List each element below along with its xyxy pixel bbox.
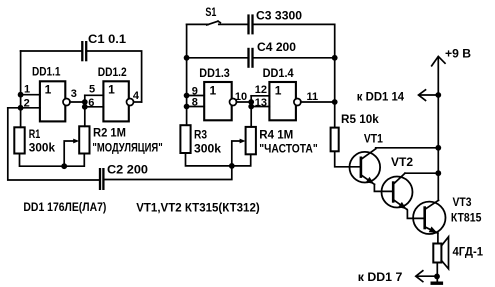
gate DD1.2 [103, 81, 133, 121]
wire pin6 [85, 106, 104, 108]
wire pin13 [251, 106, 269, 108]
svg-text:VT1: VT1 [364, 131, 383, 145]
wire pin9 [187, 95, 205, 97]
wire C4 row left [187, 57, 248, 59]
wire VT1 emitter to VT2 base [374, 184, 392, 191]
svg-text:DD1.3: DD1.3 [199, 66, 230, 80]
wire pin3 [70, 101, 85, 103]
svg-text:R3: R3 [194, 128, 207, 142]
svg-text:к DD1 7: к DD1 7 [358, 270, 403, 284]
wire R3 bottom rail to R4 [186, 153, 251, 166]
svg-text:4ГД-1: 4ГД-1 [453, 244, 484, 258]
wire to DD1 pin7 [416, 271, 437, 282]
svg-text:C3 3300: C3 3300 [256, 9, 302, 23]
svg-text:1: 1 [210, 83, 217, 97]
node pin13 junction [248, 104, 254, 110]
svg-text:к DD1 14: к DD1 14 [357, 89, 405, 103]
svg-text:DD1 176ЛЕ(ЛА7): DD1 176ЛЕ(ЛА7) [23, 200, 106, 214]
capacitor C2 [100, 168, 103, 190]
gate DD1.3 [204, 82, 236, 120]
node R1R2 wiper junction [61, 163, 67, 169]
potentiometer R4 [246, 127, 256, 154]
transistor VT3 [413, 200, 445, 234]
node rail VT2 junction [435, 170, 441, 176]
svg-text:9: 9 [192, 85, 198, 97]
svg-text:R5 10k: R5 10k [341, 112, 379, 126]
wire VT2 collector rail [405, 172, 438, 174]
wire pin11 [301, 101, 335, 103]
svg-text:C4 200: C4 200 [257, 40, 296, 54]
svg-text:R4 1M: R4 1M [259, 128, 293, 142]
wire C4 to right vertical [254, 57, 335, 59]
svg-text:DD1.4: DD1.4 [263, 66, 294, 80]
node C4 right junction [332, 55, 338, 61]
wire VT1 collector rail [376, 147, 439, 149]
svg-text:6: 6 [88, 97, 94, 109]
node pin9 junction [184, 93, 190, 99]
svg-text:"МОДУЛЯЦИЯ": "МОДУЛЯЦИЯ" [92, 141, 162, 155]
wire R1 bottom rail to R2 [20, 154, 85, 167]
svg-text:C1 0.1: C1 0.1 [88, 32, 126, 46]
resistor R3 [180, 125, 190, 153]
wire left input vertical [20, 51, 22, 127]
capacitor C3 [249, 14, 253, 34]
gate DD1.1 [40, 81, 70, 121]
node pin8 junction [184, 104, 190, 110]
svg-text:2: 2 [24, 97, 30, 109]
svg-text:VT2: VT2 [391, 155, 413, 169]
transistor VT2 [382, 173, 413, 209]
svg-text:DD1.1: DD1.1 [32, 64, 61, 78]
svg-text:VT3: VT3 [453, 195, 472, 209]
capacitor C1 [82, 41, 86, 61]
wire speaker to ground [436, 263, 438, 283]
wire mid vertical to R2 [84, 95, 86, 126]
node rail k14 junction [435, 92, 441, 98]
svg-text:13: 13 [255, 97, 267, 109]
wire +9V rail [437, 57, 439, 200]
svg-text:10: 10 [235, 91, 247, 103]
svg-text:C2 200: C2 200 [107, 163, 148, 177]
node pin6 junction [82, 104, 88, 110]
wire R4 wiper [232, 139, 246, 166]
wire pin8 [187, 106, 205, 108]
wire mid vertical to R4 [250, 96, 252, 127]
svg-text:8: 8 [192, 97, 198, 109]
node pin3 junction [82, 99, 88, 105]
wire pin12 [251, 95, 269, 97]
svg-text:12: 12 [255, 84, 267, 96]
svg-text:1: 1 [45, 83, 52, 97]
svg-text:4: 4 [133, 90, 140, 102]
resistor R5 [331, 128, 339, 152]
wire C2 to right bottom node [105, 166, 232, 180]
svg-text:"ЧАСТОТА": "ЧАСТОТА" [259, 141, 317, 155]
switch S1 [187, 21, 248, 25]
node pin1 junction [18, 92, 24, 98]
node pin2 junction [18, 105, 24, 111]
node S1C4 left junction [184, 55, 190, 61]
wire pin2 to far-left drop [8, 108, 99, 180]
node pin10 junction [248, 99, 254, 105]
wire pin1 [21, 94, 40, 96]
svg-text:300k: 300k [29, 140, 56, 154]
capacitor C4 [249, 48, 253, 68]
gate DD1.4 [269, 82, 301, 120]
wire pin10 [236, 101, 251, 103]
svg-text:1: 1 [108, 83, 115, 97]
resistor R1 [14, 127, 24, 153]
svg-text:3: 3 [71, 88, 77, 100]
wire R5 to VT1 base [335, 151, 360, 167]
svg-text:R1: R1 [29, 127, 41, 141]
svg-text:R2 1M: R2 1M [93, 125, 126, 139]
svg-text:11: 11 [307, 91, 319, 103]
svg-text:5: 5 [89, 84, 95, 96]
node +9V arrow [432, 56, 445, 65]
svg-text:DD1.2: DD1.2 [98, 65, 127, 79]
svg-text:+9 В: +9 В [445, 47, 471, 61]
wire DD1.3 input vertical [186, 24, 188, 125]
wire pin5 [85, 94, 104, 96]
wire to DD1 pin14 [419, 90, 439, 101]
ground [431, 282, 444, 285]
svg-text:1: 1 [24, 83, 30, 95]
transistor VT1 [350, 149, 381, 185]
node ground junction [434, 274, 440, 280]
wire VT3 emitter to speaker [437, 233, 439, 243]
wire top left C1 loop [21, 51, 142, 102]
svg-text:300k: 300k [194, 141, 221, 155]
speaker BA1 [433, 237, 448, 269]
wire R2 wiper [64, 139, 79, 167]
node rail VT1 junction [435, 145, 441, 151]
node R3R4 junction [229, 163, 235, 169]
svg-text:КТ815: КТ815 [451, 211, 482, 225]
wire VT2 emitter to VT3 base [407, 209, 424, 218]
node pin11 junction [332, 99, 338, 105]
svg-text:1: 1 [275, 83, 282, 97]
wire C3 to right vertical [254, 24, 335, 127]
svg-text:S1: S1 [205, 5, 216, 19]
svg-text:VT1,VT2 КТ315(КТ312): VT1,VT2 КТ315(КТ312) [136, 200, 260, 214]
potentiometer R2 [79, 126, 89, 153]
